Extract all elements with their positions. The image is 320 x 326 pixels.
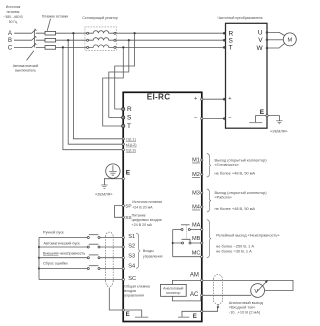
svg-text:R: R	[127, 106, 132, 113]
SC annotation	[124, 284, 149, 297]
svg-text:монитор: монитор	[166, 291, 180, 295]
EI-RC terminal S4	[122, 264, 135, 270]
wire MC	[173, 256, 201, 258]
circuit breaker QF blades	[31, 29, 36, 48]
chassis bar lower-right	[178, 316, 189, 318]
wire tap B after reactor to EI-RC S	[109, 40, 129, 117]
relay contact NO	[181, 225, 190, 231]
EI-RC terminal E upper	[122, 170, 131, 180]
control inputs annotation	[143, 249, 163, 258]
svg-text:V: V	[258, 37, 263, 44]
svg-text:r1(L1): r1(L1)	[126, 137, 137, 141]
earth ground symbol left	[101, 185, 107, 188]
svg-text:S: S	[229, 37, 234, 44]
svg-text:Ручной пуск: Ручной пуск	[43, 231, 64, 235]
node: relay MB junction	[172, 242, 174, 244]
inverter internal chassis ground	[256, 116, 266, 123]
fuse FU2	[45, 38, 56, 42]
node: tap A after reactor	[134, 32, 136, 34]
wire AC to voltmeter	[203, 294, 251, 296]
svg-text:R: R	[229, 30, 234, 37]
inverter terminal plus	[223, 96, 232, 102]
node: tap C after reactor	[122, 46, 124, 48]
svg-text:50 Гц: 50 Гц	[9, 20, 18, 24]
shield arrow right	[217, 305, 220, 308]
svg-text:E: E	[260, 109, 265, 116]
shielded cable capsule left	[105, 232, 113, 287]
wire analog monitor to AC	[172, 296, 200, 301]
EI-RC terminal r1(L1)	[122, 137, 137, 141]
svg-text:Источник питания: Источник питания	[132, 200, 162, 204]
switch SB3	[87, 255, 100, 259]
svg-text:MB: MB	[192, 236, 201, 242]
EI-RC terminal S1	[122, 234, 135, 240]
svg-text:S: S	[127, 115, 132, 122]
EI-RC terminal M4	[192, 205, 203, 211]
svg-text:S3: S3	[128, 254, 135, 260]
inverter terminal S	[223, 37, 234, 44]
analog output annotation	[229, 300, 264, 314]
svg-text:M: M	[287, 38, 292, 44]
svg-text:E: E	[193, 313, 197, 320]
EI-RC terminal T	[122, 123, 131, 130]
wire U to motor	[268, 32, 284, 35]
EI-RC terminal minus	[194, 115, 203, 121]
svg-text:«Готовность»: «Готовность»	[215, 162, 239, 167]
M1 M2 annotation ready output	[215, 158, 268, 176]
node: tap A before reactor	[72, 32, 74, 34]
EI-RC terminal MB	[192, 236, 203, 244]
relay contact NC	[182, 239, 192, 244]
EI-RC terminal SP	[122, 204, 132, 210]
switch SB2 wire	[39, 246, 122, 248]
svg-text:−: −	[194, 115, 197, 121]
switch SB4	[87, 266, 100, 270]
EI-RC terminal MC	[192, 250, 203, 257]
SP annotation	[132, 200, 162, 209]
EI-RC terminal AC	[190, 292, 203, 298]
EI-RC terminal E lower-left	[122, 309, 130, 318]
chassis ground lower-right	[182, 311, 201, 317]
analog monitor box	[161, 284, 187, 296]
svg-text:+: +	[228, 96, 231, 102]
EI-RC terminal M3	[192, 191, 203, 197]
inverter terminal T	[223, 45, 233, 52]
EI-RC terminal S3	[122, 254, 135, 260]
inverter terminal V	[258, 37, 268, 44]
relay link dotted	[185, 225, 187, 239]
svg-text:W: W	[256, 45, 263, 52]
svg-text:Автоматический: Автоматический	[13, 64, 39, 68]
brace control inputs	[136, 233, 140, 268]
reactor coil phase A	[87, 31, 116, 35]
wire AM to voltmeter	[203, 280, 293, 290]
svg-text:Автоматический пуск: Автоматический пуск	[44, 241, 81, 245]
wire E to earth left	[104, 179, 122, 185]
EI-RC box U1	[123, 92, 202, 321]
svg-text:EI-RC: EI-RC	[147, 93, 171, 102]
wire E to cable shield right	[203, 307, 218, 311]
shielded cable capsule right	[214, 275, 223, 305]
svg-text:V: V	[254, 289, 258, 295]
EI-RC terminal t1(L3)	[122, 148, 136, 152]
svg-text:Питание: Питание	[132, 214, 146, 218]
wire phase C from source to breaker	[14, 46, 31, 48]
switch SB1 wire	[39, 237, 122, 239]
switch SB2	[87, 244, 100, 248]
earth ground symbol at inverter	[276, 121, 282, 124]
reactor L1 dashed box	[85, 27, 116, 51]
chassis bar lower-left	[135, 316, 148, 318]
reactor coil phase B	[87, 38, 116, 42]
M3 M4 annotation run output	[215, 190, 268, 211]
svg-text:Внешняя неисправность: Внешняя неисправность	[43, 251, 85, 255]
circuit breaker label pointer	[27, 51, 34, 61]
brace M1 M2	[207, 154, 211, 178]
wire E to earth	[268, 116, 279, 121]
svg-text:B: B	[8, 38, 12, 44]
wire DC plus link	[202, 98, 225, 100]
relay contact NO wire MA	[173, 229, 201, 231]
EI-RC terminal s1(L2)	[122, 143, 137, 147]
svg-text:Частотный преобразователь: Частотный преобразователь	[217, 16, 262, 20]
svg-text:MC: MC	[192, 250, 201, 256]
wire phase B reactor to inverter S	[116, 39, 224, 41]
relay contact NC wire MB	[173, 242, 201, 244]
circuit breaker linkage	[34, 30, 36, 48]
EI-RC terminal SS	[122, 215, 132, 221]
wire phase B breaker to reactor	[36, 39, 88, 41]
fuse FU3	[45, 46, 56, 50]
node: junction S4 common	[38, 268, 40, 270]
svg-text:выключатель: выключатель	[15, 69, 36, 73]
svg-text:Согласующий реактор: Согласующий реактор	[82, 16, 117, 20]
svg-text:M2: M2	[192, 172, 200, 178]
EI-RC terminal M1	[192, 158, 203, 164]
svg-text:S1: S1	[128, 234, 135, 240]
wire tap A down to r1 terminal	[73, 33, 122, 139]
svg-text:AM: AM	[190, 272, 199, 278]
wire tap A after reactor to EI-RC R	[115, 33, 135, 109]
svg-text:цифровых входов: цифровых входов	[132, 218, 162, 222]
svg-text:входов: входов	[124, 289, 136, 293]
inverter terminal U	[258, 30, 268, 37]
svg-text:управления: управления	[124, 294, 144, 298]
svg-text:SC: SC	[128, 276, 136, 282]
svg-text:+24 В 20 мА: +24 В 20 мА	[132, 223, 153, 227]
svg-text:Плавкие вставки: Плавкие вставки	[42, 14, 68, 18]
switch common vertical wire	[38, 238, 40, 280]
fuse FU1	[45, 31, 56, 35]
motor M	[283, 33, 296, 46]
svg-text:не более =30 В, 1 А: не более =30 В, 1 А	[216, 248, 252, 253]
switch SB4 wire	[39, 268, 122, 270]
switch SB1	[87, 235, 100, 239]
svg-text:не более +48 В, 50 мА: не более +48 В, 50 мА	[215, 170, 256, 175]
relay common vertical wire	[172, 230, 174, 257]
fuses label pointer	[47, 19, 50, 31]
svg-text:C: C	[8, 45, 13, 51]
inverter terminal minus	[223, 115, 232, 121]
svg-text:M1: M1	[192, 158, 200, 164]
node: power source label	[3, 5, 23, 24]
svg-text:Источник: Источник	[6, 5, 21, 9]
jumper SP-SS	[115, 206, 123, 218]
node: junction S2 common	[38, 246, 40, 248]
EI-RC terminal E lower-right	[193, 310, 203, 320]
brace M3 M4	[207, 189, 211, 212]
svg-text:E: E	[126, 170, 131, 177]
wire cable shield to E lower	[109, 288, 122, 311]
EI-RC terminal plus	[194, 96, 203, 102]
svg-text:«ЗЕМЛЯ»: «ЗЕМЛЯ»	[270, 129, 287, 133]
frequency converter box U2	[226, 23, 268, 128]
svg-text:s1(L2): s1(L2)	[126, 143, 137, 147]
EI-RC terminal M2	[192, 172, 203, 178]
node: tap B after reactor	[128, 39, 130, 41]
EI-RC terminal R	[122, 106, 132, 113]
EI-RC terminal MA	[192, 222, 203, 230]
chassis ground lower-left	[124, 310, 141, 317]
wire phase B from source to breaker	[14, 39, 31, 41]
svg-text:T: T	[229, 45, 233, 52]
EI-RC terminal S	[122, 115, 132, 122]
svg-text:~380...460 В: ~380...460 В	[3, 15, 23, 19]
svg-text:Аналоговый: Аналоговый	[163, 287, 183, 291]
wire DC minus link	[202, 118, 225, 120]
svg-text:питания: питания	[7, 10, 20, 14]
svg-text:SP: SP	[125, 204, 131, 210]
wire phase A breaker to reactor	[36, 32, 88, 34]
reactor coil phase C	[87, 45, 116, 49]
svg-text:t1(L3): t1(L3)	[126, 148, 137, 152]
wire V to motor	[268, 39, 283, 41]
wire phase C reactor to inverter T	[116, 46, 224, 48]
svg-text:S4: S4	[128, 264, 135, 270]
svg-text:M3: M3	[192, 191, 200, 197]
relay annotation	[216, 232, 279, 253]
svg-text:S2: S2	[128, 244, 135, 250]
svg-text:«Работа»: «Работа»	[215, 195, 232, 200]
svg-text:+24 В 20 мА: +24 В 20 мА	[132, 205, 153, 209]
wire AM to analog monitor	[172, 280, 200, 284]
inverter terminal E	[260, 109, 268, 117]
inverter terminal R	[223, 30, 234, 37]
svg-text:M4: M4	[192, 205, 200, 211]
EI-RC terminal SC	[122, 276, 136, 282]
SS annotation	[132, 214, 162, 227]
inverter terminal W	[256, 45, 268, 52]
switch SB3 wire	[39, 257, 122, 259]
wire tap C down to t1 terminal	[63, 47, 122, 149]
wire SC common	[39, 279, 122, 281]
svg-text:+: +	[194, 96, 197, 102]
EI-RC terminal S2	[122, 244, 135, 250]
wire phase A from source to breaker	[14, 32, 31, 34]
svg-text:«ЗЕМЛЯ»: «ЗЕМЛЯ»	[95, 193, 112, 197]
voltmeter V	[251, 280, 268, 297]
wire phase A reactor to inverter R	[116, 32, 224, 34]
svg-text:AC: AC	[190, 292, 199, 298]
node: tap C before reactor	[62, 46, 64, 48]
EI-RC terminal AM	[190, 272, 203, 281]
svg-text:T: T	[127, 123, 131, 130]
node: tap B before reactor	[67, 39, 69, 41]
svg-text:Общая клемма: Общая клемма	[124, 284, 149, 288]
wire W to motor	[268, 44, 284, 48]
svg-text:Релейный выход «Неисправность»: Релейный выход «Неисправность»	[216, 232, 279, 237]
svg-text:−: −	[228, 115, 231, 121]
svg-text:не более +48 В, 50 мА: не более +48 В, 50 мА	[215, 206, 256, 211]
node: junction S3 common	[38, 257, 40, 259]
svg-text:управления: управления	[143, 254, 163, 258]
svg-text:E: E	[126, 311, 130, 318]
inverter chassis bar	[249, 122, 262, 124]
svg-text:A: A	[8, 31, 12, 37]
svg-text:Сброс ошибки: Сброс ошибки	[43, 261, 68, 265]
svg-text:MA: MA	[192, 222, 201, 228]
circuit breaker label	[13, 64, 39, 73]
svg-text:Входы: Входы	[143, 249, 154, 253]
svg-text:-10...+10 В (2 мА): -10...+10 В (2 мА)	[229, 309, 261, 314]
brace relay output	[207, 220, 211, 258]
wire tap B down to s1 terminal	[68, 40, 122, 144]
svg-text:U: U	[258, 30, 263, 37]
protective earth circle symbol	[106, 164, 120, 178]
wire tap C after reactor to EI-RC T	[103, 47, 124, 126]
wire phase C breaker to reactor	[36, 46, 88, 48]
